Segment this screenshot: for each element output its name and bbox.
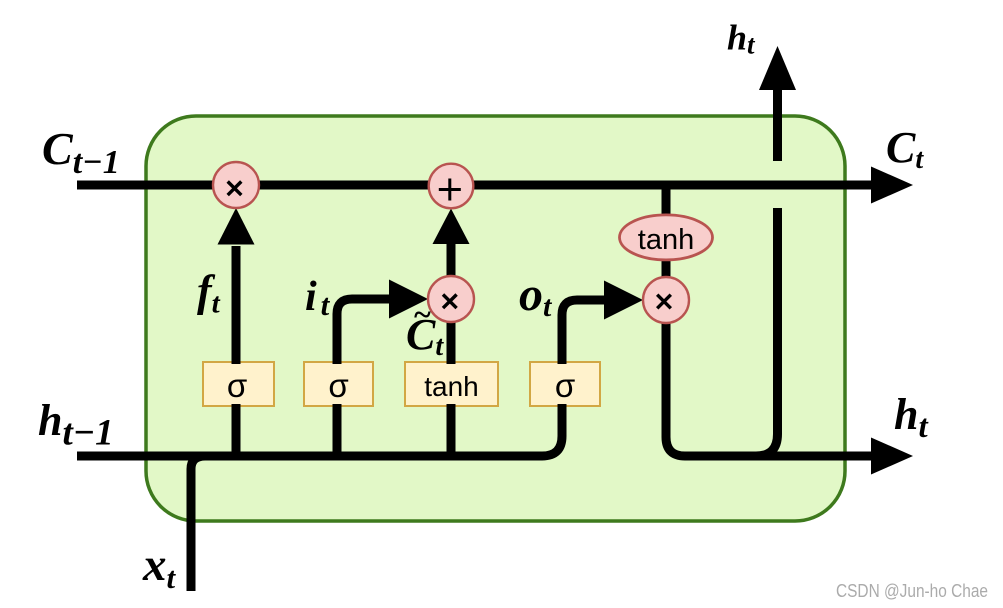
wire arrowhead C_t [871,167,913,204]
svg-text:σ: σ [227,367,247,404]
wire: hidden state bottom line to o-gate [77,300,606,456]
node: multiply (input) [428,276,474,322]
wire arrowhead h_t up [759,46,796,90]
node: multiply (forget) [213,162,259,208]
wire: C branch down through tanh to mult [662,187,671,300]
svg-text:xt: xt [142,539,177,595]
svg-text:~: ~ [413,296,431,332]
wire arrowhead into plus [433,209,470,245]
gate box tanh [405,362,498,406]
gate box sigma (output) [530,362,600,406]
wire: i_t branch [337,299,391,456]
svg-text:σ: σ [555,367,575,404]
wire: tanh gate branch up [447,302,456,456]
wire: x_t input [191,456,205,591]
svg-text:tanh: tanh [638,224,694,256]
node: tanh ellipse [620,215,713,260]
wire: h_t up branch (lower segment) [756,208,778,456]
wire: f_t branch up [232,246,241,456]
svg-text:ht: ht [727,18,756,60]
gate box sigma (input) [304,362,373,406]
wire arrowhead h_t right [871,438,913,475]
wire: h_t up branch (upper segment, crossover gap) [773,89,782,161]
node: multiply (output) [643,277,689,323]
gate box sigma (forget) [203,362,274,406]
svg-text:ht−1: ht−1 [38,396,114,454]
wire arrowhead f_t [218,208,255,245]
svg-text:σ: σ [328,367,348,404]
wire stubs crossing gate box borders [236,354,562,414]
wire arrowhead i_t into mult [389,280,428,319]
wire arrowhead o_t into mult [604,281,643,320]
svg-text:CSDN @Jun-ho Chae: CSDN @Jun-ho Chae [836,581,988,601]
node: add [429,164,474,209]
svg-text:Ct: Ct [886,123,924,175]
wire: mult to plus arrow [447,243,456,278]
svg-text:tanh: tanh [424,371,479,402]
wire: output line to h_t right [666,320,873,456]
LSTM cell body [146,116,845,521]
wire: cell state line C [77,181,873,190]
svg-text:ht: ht [894,390,928,445]
svg-text:Ct−1: Ct−1 [42,123,120,181]
